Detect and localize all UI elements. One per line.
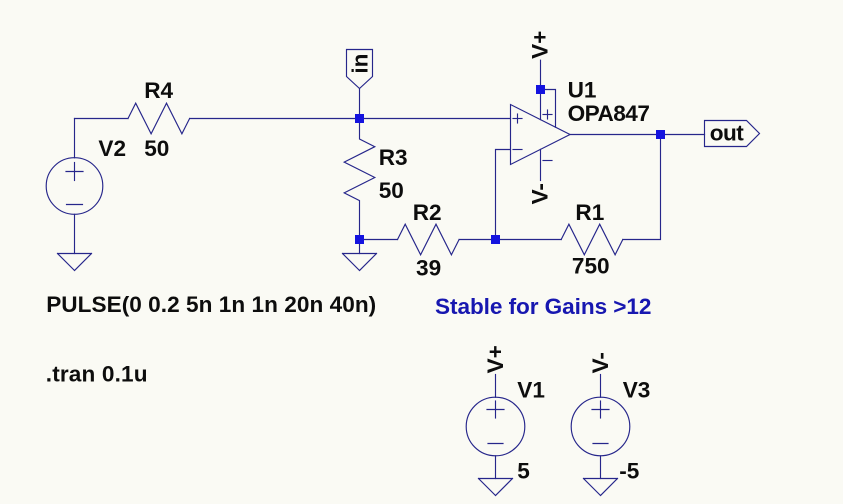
wire — [623, 135, 661, 240]
node R3 bottom junction — [355, 235, 364, 244]
svg-text:U1: U1 — [568, 77, 597, 102]
ground — [584, 479, 618, 496]
svg-text:V+: V+ — [483, 345, 508, 373]
resistor R2 — [398, 224, 460, 255]
svg-text:R3: R3 — [379, 145, 408, 170]
svg-text:PULSE(0 0.2 5n 1n 1n 20n 40n): PULSE(0 0.2 5n 1n 1n 20n 40n) — [46, 292, 376, 317]
ground — [58, 254, 92, 271]
svg-text:50: 50 — [379, 178, 404, 203]
wire — [496, 150, 511, 240]
op-amp U1 — [511, 90, 571, 181]
wire — [74, 214, 76, 253]
svg-text:R4: R4 — [144, 78, 173, 103]
resistor R1 — [561, 224, 623, 255]
voltage source V2 — [46, 158, 103, 215]
svg-text:R2: R2 — [413, 200, 442, 225]
node in junction — [355, 114, 364, 123]
wire — [74, 119, 76, 158]
svg-text:V3: V3 — [623, 377, 651, 402]
svg-text:R1: R1 — [575, 200, 604, 225]
svg-text:V1: V1 — [517, 377, 545, 402]
voltage source V1 — [466, 375, 525, 479]
svg-text:V-: V- — [527, 183, 552, 204]
svg-text:39: 39 — [416, 256, 441, 281]
svg-text:V+: V+ — [527, 31, 552, 59]
svg-text:750: 750 — [572, 253, 610, 278]
svg-text:V-: V- — [588, 352, 613, 373]
wire — [496, 239, 562, 241]
wire — [359, 89, 361, 119]
ground — [479, 479, 513, 496]
net flag out — [705, 121, 760, 147]
wire — [360, 239, 398, 241]
ground — [343, 254, 377, 271]
svg-text:Stable for Gains >12: Stable for Gains >12 — [435, 294, 652, 319]
wire — [75, 118, 129, 120]
wire — [570, 134, 705, 136]
resistor R4 — [128, 103, 190, 134]
svg-text:50: 50 — [144, 136, 169, 161]
wire — [190, 118, 360, 120]
svg-text:5: 5 — [517, 459, 530, 484]
resistor R3 — [344, 119, 375, 240]
net flag in — [347, 50, 373, 89]
svg-text:OPA847: OPA847 — [568, 101, 650, 126]
node feedback junction — [491, 235, 500, 244]
svg-text:.tran 0.1u: .tran 0.1u — [46, 362, 148, 387]
node out junction — [656, 130, 665, 139]
node V+ junction — [536, 85, 545, 94]
svg-text:-5: -5 — [619, 459, 639, 484]
wire — [540, 60, 542, 89]
wire — [359, 240, 361, 254]
svg-text:V2: V2 — [98, 136, 126, 161]
voltage source V3 — [571, 375, 630, 479]
wire — [360, 118, 511, 120]
svg-text:out: out — [710, 120, 744, 145]
svg-text:in: in — [347, 54, 372, 74]
wire — [459, 239, 495, 241]
